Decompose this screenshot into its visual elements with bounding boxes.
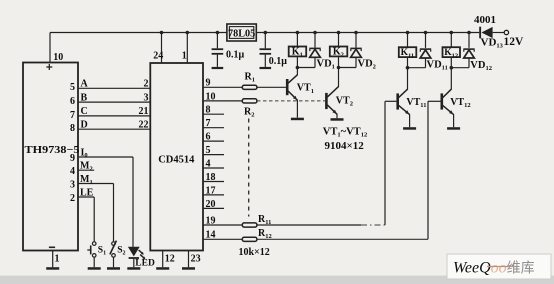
svg-text:LE: LE [80, 187, 94, 198]
svg-text:24: 24 [153, 51, 163, 62]
svg-text:1: 1 [55, 254, 60, 265]
svg-text:4: 4 [206, 158, 211, 169]
svg-text:8: 8 [206, 105, 211, 116]
svg-text:9: 9 [206, 78, 211, 89]
svg-text:19: 19 [206, 215, 216, 226]
svg-text:5: 5 [206, 145, 211, 156]
svg-text:4001: 4001 [474, 14, 496, 26]
svg-text:10: 10 [53, 52, 63, 63]
svg-text:B: B [81, 92, 88, 103]
svg-text:5: 5 [70, 82, 75, 93]
svg-text:22: 22 [139, 120, 149, 131]
svg-text:0.1μ: 0.1μ [226, 50, 245, 61]
svg-text:A: A [81, 79, 89, 90]
svg-text:C: C [81, 106, 88, 117]
svg-text:7: 7 [70, 110, 75, 121]
svg-text:12: 12 [165, 253, 175, 264]
svg-text:10: 10 [206, 91, 216, 102]
svg-text:8: 8 [70, 123, 75, 134]
svg-text:D: D [81, 120, 88, 131]
svg-text:18: 18 [206, 172, 216, 183]
svg-text:78L05: 78L05 [228, 29, 255, 40]
svg-text:14: 14 [206, 230, 216, 241]
svg-text:12V: 12V [504, 36, 525, 48]
svg-text:3: 3 [70, 179, 75, 190]
svg-text:CD4514: CD4514 [158, 155, 195, 166]
svg-text:6: 6 [70, 96, 75, 107]
svg-text:0.1μ: 0.1μ [269, 56, 288, 67]
svg-text:LED: LED [135, 258, 155, 268]
svg-text:9: 9 [70, 153, 75, 164]
svg-text:7: 7 [206, 118, 211, 129]
svg-text:23: 23 [191, 253, 201, 264]
svg-text:WeeQoo维库: WeeQoo维库 [453, 260, 535, 277]
svg-text:20: 20 [206, 199, 216, 210]
svg-text:4: 4 [70, 166, 75, 177]
svg-text:21: 21 [139, 106, 149, 117]
svg-text:1: 1 [182, 51, 187, 62]
svg-text:10k×12: 10k×12 [239, 247, 270, 258]
svg-text:2: 2 [70, 193, 75, 204]
svg-text:9104×12: 9104×12 [325, 140, 365, 152]
svg-text:2: 2 [144, 79, 149, 90]
svg-text:6: 6 [206, 132, 211, 143]
svg-text:3: 3 [144, 92, 149, 103]
svg-text:VT1~VT12: VT1~VT12 [323, 127, 367, 139]
svg-text:17: 17 [206, 185, 216, 196]
